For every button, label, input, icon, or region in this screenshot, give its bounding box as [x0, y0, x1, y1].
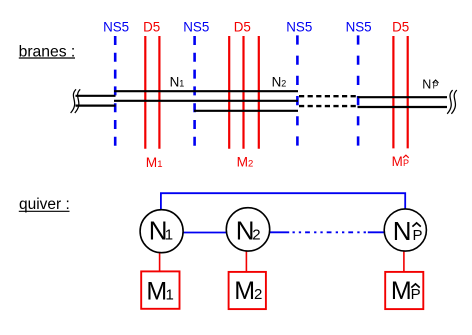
svg-text:P: P — [403, 158, 409, 168]
gauge node circle NP-hat — [384, 209, 426, 251]
flavour node square M2 — [229, 272, 266, 309]
left break squiggle — [71, 89, 81, 113]
svg-text:M: M — [392, 154, 403, 169]
svg-text:1: 1 — [166, 286, 174, 303]
svg-text:2: 2 — [254, 286, 262, 303]
svg-text:quiver :: quiver : — [19, 196, 70, 213]
svg-text:N: N — [393, 216, 412, 246]
D5 brane group 3 line b — [407, 36, 409, 148]
NS5 brane 1 (dashed blue vertical) — [114, 36, 117, 146]
square text M2 — [234, 277, 262, 305]
D3 brane left outer line bottom — [76, 104, 116, 106]
square text M1 — [146, 277, 173, 305]
D5 brane group 2 line c — [258, 36, 260, 149]
svg-text:M: M — [146, 277, 167, 305]
D3 brane dashed continuation top — [299, 95, 357, 97]
right break squiggle — [447, 90, 457, 114]
flavour node square MP-hat — [385, 272, 423, 309]
svg-text:NS5: NS5 — [346, 19, 372, 34]
svg-text:N: N — [422, 78, 431, 92]
red edge N2-M2 — [245, 251, 247, 272]
D3 brane bay line 2 — [114, 100, 298, 102]
D5 brane group 1 line a — [144, 36, 146, 149]
D3 brane dashed continuation bottom — [299, 105, 357, 107]
red edge NP-MP — [403, 251, 405, 272]
blue edge N2-NP right solid part — [368, 231, 385, 233]
svg-text:P: P — [413, 227, 423, 244]
blue edge N2-NP dash-dot part — [293, 231, 368, 233]
NS5 brane 2 (dashed blue vertical) — [193, 36, 196, 146]
D5 brane group 2 line a — [228, 36, 230, 149]
D5 brane group 1 line b — [158, 36, 160, 149]
D3 brane left outer line top — [76, 95, 116, 97]
gauge node circle N2 — [226, 208, 269, 251]
svg-text:D5: D5 — [143, 19, 160, 34]
node label N P-hat (branes) — [422, 78, 438, 92]
node text N2 — [236, 216, 261, 246]
node text N1 — [149, 216, 173, 246]
NS5 brane 3 (dashed blue vertical) — [296, 35, 299, 146]
blue bracket wire N1 to NP-hat — [161, 193, 405, 210]
blue edge N1-N2 — [183, 232, 226, 234]
D3 brane bay line 3 — [194, 110, 298, 112]
gauge node circle N1 — [140, 210, 183, 253]
square text MP-hat — [391, 277, 421, 305]
red edge N1-M1 — [159, 253, 161, 273]
D3 brane right outer line top — [358, 96, 448, 98]
svg-text:M: M — [391, 277, 412, 305]
D3 brane bay line 1 — [114, 90, 298, 92]
D3 brane right outer line bottom — [358, 106, 448, 108]
flavour node square M1 — [141, 271, 179, 308]
blue edge N2-NP left solid part — [270, 231, 290, 233]
svg-text:D5: D5 — [234, 19, 251, 34]
svg-text:M: M — [234, 277, 255, 305]
svg-text:2: 2 — [252, 227, 260, 244]
svg-text:D5: D5 — [392, 19, 409, 34]
svg-text:NS5: NS5 — [103, 19, 129, 34]
D5 brane group 2 line b — [242, 36, 244, 149]
svg-text:P: P — [411, 286, 421, 303]
label "branes :" — [19, 44, 76, 61]
D5 brane group 3 line a — [392, 36, 394, 148]
svg-text:NS5: NS5 — [286, 19, 312, 34]
NS5 brane 4 (dashed blue vertical) — [357, 35, 360, 146]
node text NP-hat — [393, 216, 423, 246]
svg-text:1: 1 — [165, 227, 173, 244]
flavour label M P-hat (branes) — [392, 154, 409, 169]
label "quiver :" — [19, 196, 70, 213]
svg-text:NS5: NS5 — [183, 19, 209, 34]
